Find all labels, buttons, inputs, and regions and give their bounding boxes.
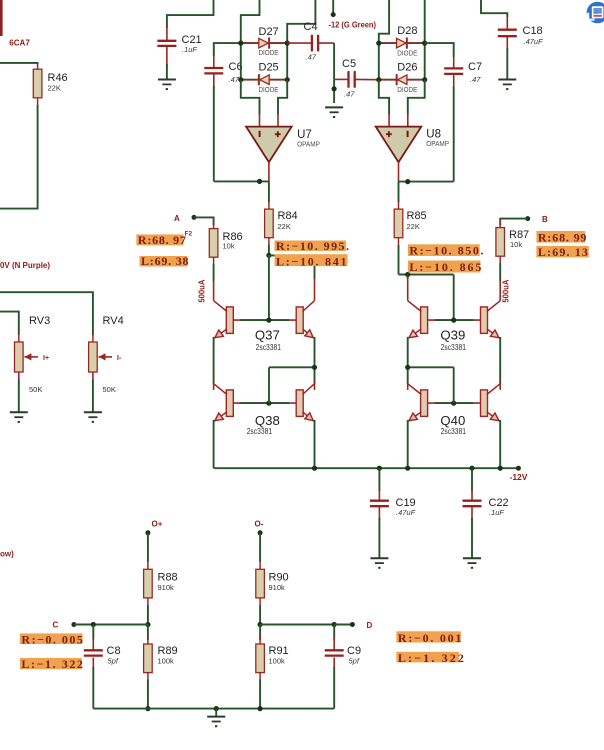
svg-text:DIODE: DIODE — [397, 48, 417, 57]
svg-text:22K: 22K — [407, 222, 420, 231]
svg-text:-12 (G Green): -12 (G Green) — [329, 21, 377, 30]
svg-text:R:−10. 995.: R:−10. 995. — [276, 239, 349, 253]
svg-text:D25: D25 — [259, 61, 279, 73]
svg-text:22K: 22K — [48, 83, 61, 92]
svg-text:I-: I- — [117, 355, 122, 362]
svg-text:910k: 910k — [269, 583, 286, 592]
svg-text:L:−10. 841: L:−10. 841 — [276, 254, 347, 268]
svg-text:100k: 100k — [269, 657, 286, 666]
svg-text:DIODE: DIODE — [397, 85, 417, 94]
svg-text:Q38: Q38 — [255, 413, 280, 428]
svg-text:R:−10. 850.: R:−10. 850. — [409, 244, 483, 258]
svg-text:DIODE: DIODE — [259, 85, 279, 94]
svg-text:OPAMP: OPAMP — [297, 140, 320, 149]
svg-text:.47: .47 — [306, 53, 317, 62]
svg-text:RV4: RV4 — [103, 315, 124, 327]
svg-text:R87: R87 — [509, 229, 529, 241]
svg-text:C4: C4 — [304, 21, 318, 33]
svg-text:50K: 50K — [29, 385, 42, 394]
svg-text:.1uF: .1uF — [489, 508, 504, 517]
svg-text:500uA: 500uA — [198, 279, 207, 302]
svg-text:D: D — [367, 621, 373, 630]
svg-text:10k: 10k — [510, 240, 522, 249]
svg-text:R85: R85 — [407, 210, 427, 222]
svg-text:OPAMP: OPAMP — [426, 139, 449, 148]
svg-text:2sc3381: 2sc3381 — [441, 427, 467, 436]
svg-text:500uA: 500uA — [502, 279, 511, 302]
svg-text:D26: D26 — [397, 62, 417, 74]
svg-text:R:−0. 001: R:−0. 001 — [398, 631, 462, 645]
svg-text:L:69. 38: L:69. 38 — [141, 254, 189, 268]
svg-text:2sc3381: 2sc3381 — [256, 343, 282, 352]
svg-text:C5: C5 — [342, 58, 356, 70]
svg-text:.47: .47 — [229, 75, 240, 84]
svg-text:2sc3381: 2sc3381 — [441, 343, 467, 352]
svg-text:O-: O- — [255, 519, 264, 528]
svg-text:B: B — [542, 215, 548, 224]
svg-text:L:−10. 865: L:−10. 865 — [409, 260, 481, 274]
svg-text:C: C — [53, 621, 59, 630]
svg-text:L:69. 13: L:69. 13 — [538, 245, 588, 259]
svg-text:910k: 910k — [158, 583, 175, 592]
svg-text:.47: .47 — [344, 90, 355, 99]
svg-text:6CA7: 6CA7 — [9, 38, 30, 48]
svg-text:Q40: Q40 — [440, 413, 465, 428]
svg-text:R:68. 97: R:68. 97 — [138, 233, 186, 247]
svg-text:R88: R88 — [158, 571, 178, 583]
svg-text:10k: 10k — [223, 242, 235, 251]
svg-text:R91: R91 — [269, 645, 289, 657]
svg-text:5pf: 5pf — [349, 657, 360, 666]
svg-text:.1uF: .1uF — [182, 45, 197, 54]
svg-text:DIODE: DIODE — [259, 48, 279, 57]
svg-text:R46: R46 — [48, 72, 68, 84]
svg-text:-12V: -12V — [510, 472, 528, 482]
svg-text:R89: R89 — [158, 645, 178, 657]
svg-text:C7: C7 — [468, 61, 482, 73]
svg-text:0V (N Purple): 0V (N Purple) — [0, 261, 50, 270]
svg-text:100k: 100k — [158, 657, 175, 666]
svg-text:C8: C8 — [107, 645, 121, 657]
svg-text:I+: I+ — [43, 355, 49, 362]
svg-text:L:−1. 322: L:−1. 322 — [21, 657, 83, 671]
svg-text:R:68. 99: R:68. 99 — [538, 230, 587, 244]
svg-text:ow): ow) — [0, 549, 14, 558]
svg-text:Q37: Q37 — [255, 327, 280, 342]
svg-text:L:−1. 322: L:−1. 322 — [398, 651, 464, 665]
svg-text:22K: 22K — [278, 222, 291, 231]
svg-text:R84: R84 — [278, 210, 298, 222]
svg-text:50K: 50K — [103, 385, 116, 394]
svg-text:D28: D28 — [397, 25, 417, 37]
svg-text:O+: O+ — [152, 519, 163, 528]
svg-text:D27: D27 — [259, 26, 279, 38]
svg-text:RV3: RV3 — [29, 315, 50, 327]
svg-text:C18: C18 — [523, 25, 543, 37]
svg-text:R:−0. 005: R:−0. 005 — [21, 633, 83, 647]
svg-text:2sc3381: 2sc3381 — [247, 427, 273, 436]
svg-text:.47uF: .47uF — [524, 37, 544, 46]
svg-text:C9: C9 — [347, 645, 361, 657]
svg-text:.47: .47 — [470, 75, 481, 84]
svg-text:Q39: Q39 — [440, 327, 465, 342]
svg-text:A: A — [174, 214, 180, 223]
svg-text:R90: R90 — [269, 571, 289, 583]
svg-text:5pf: 5pf — [108, 657, 119, 666]
svg-text:.47uF: .47uF — [396, 508, 416, 517]
